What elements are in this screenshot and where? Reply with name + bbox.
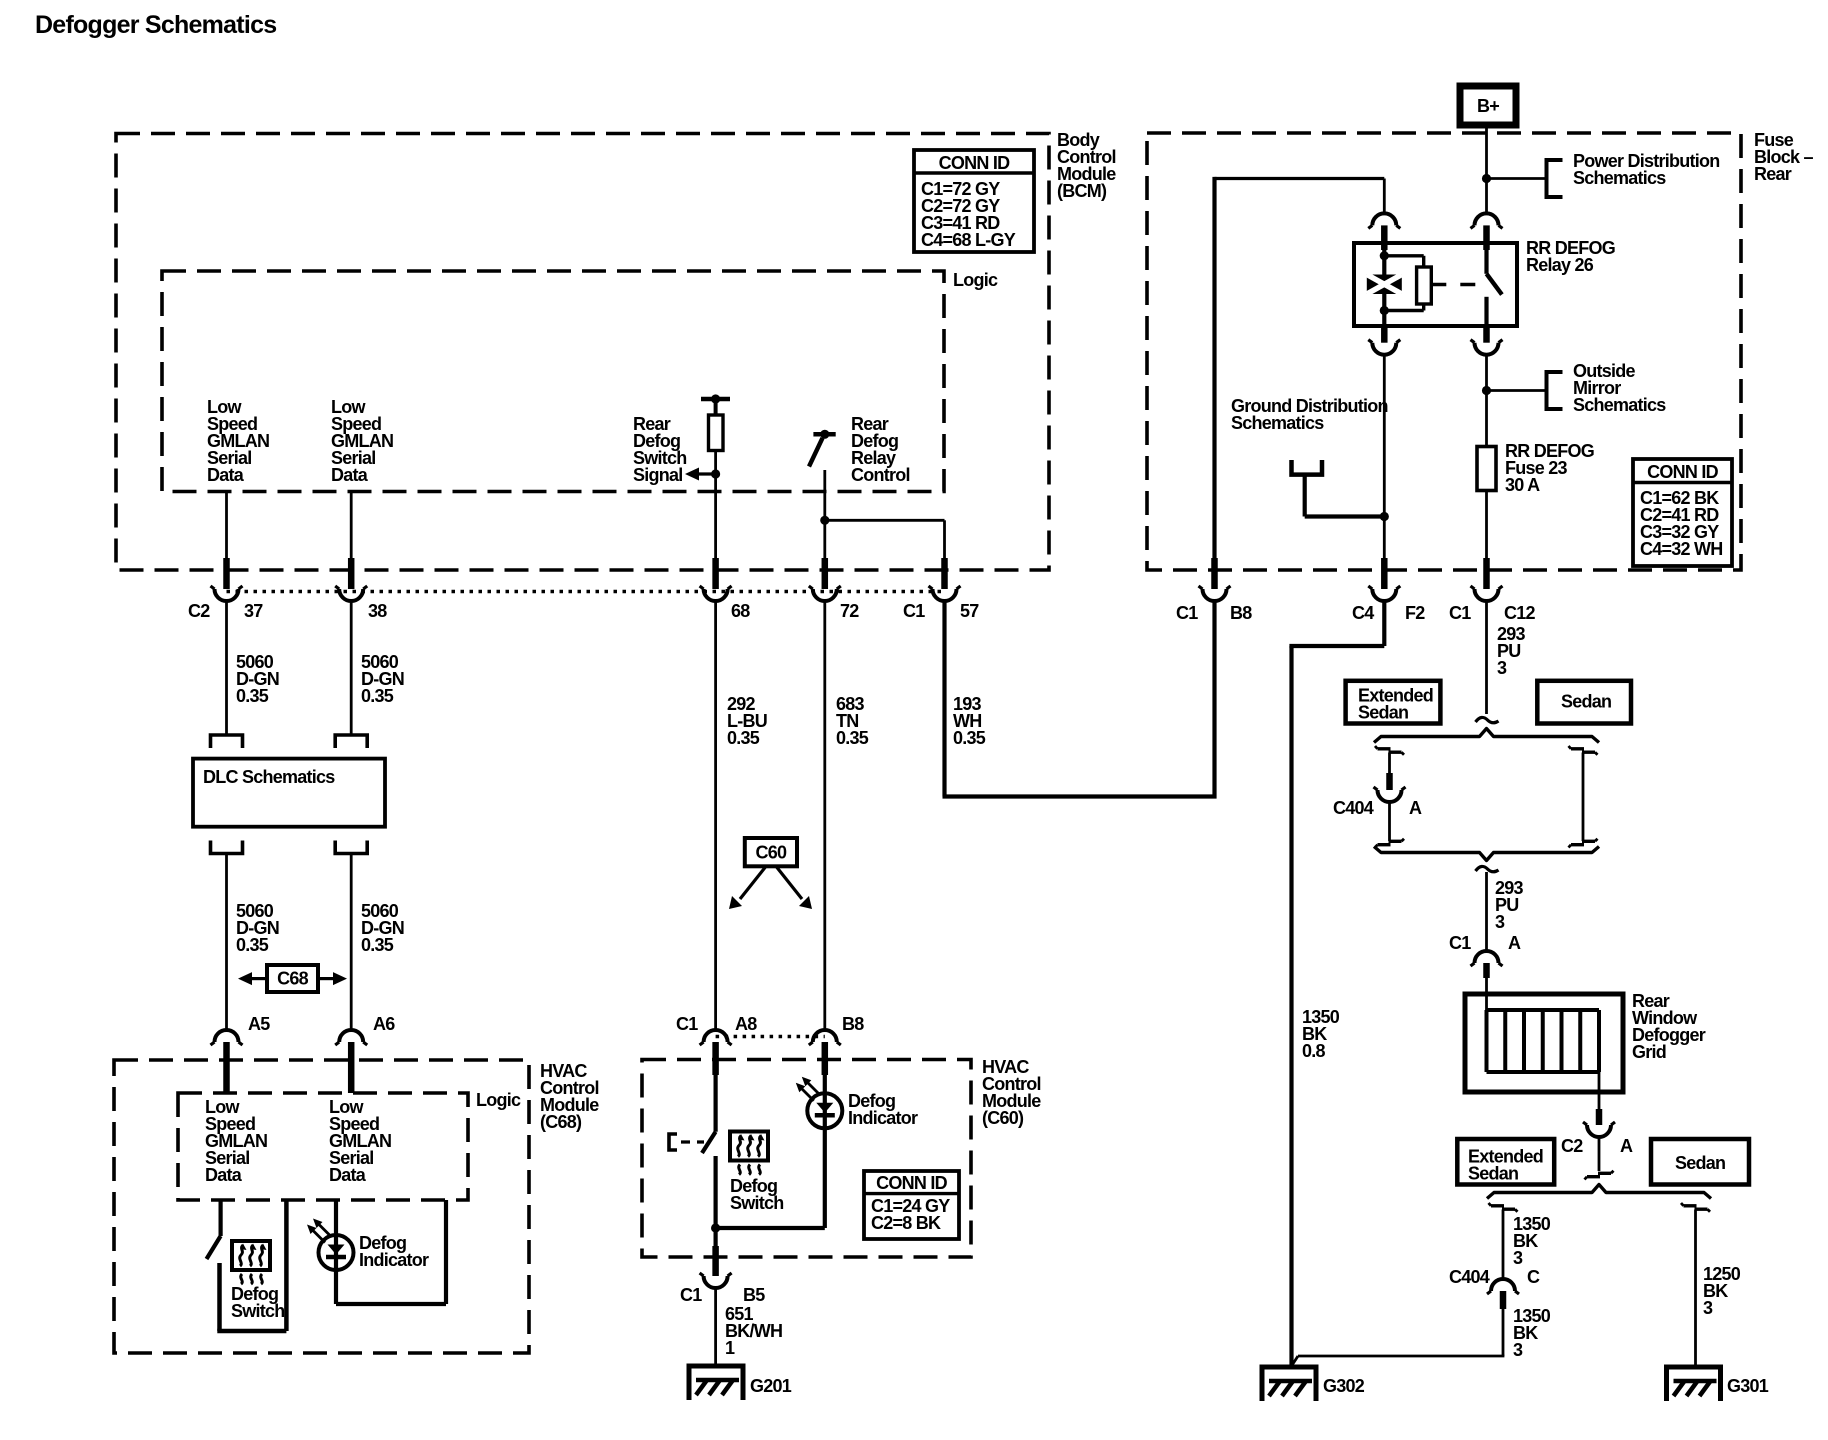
- wire C68 indicator net: [334, 1200, 338, 1304]
- svg-text:Defogger Schematics: Defogger Schematics: [35, 11, 276, 39]
- svg-text:C68: C68: [277, 969, 309, 989]
- svg-text:72: 72: [840, 601, 859, 621]
- svg-text:C1: C1: [1449, 933, 1471, 953]
- wire-end squiggle below merge: [1476, 866, 1499, 871]
- connector pin 38 (BCM bottom): [348, 558, 355, 589]
- wire B+ feed into fuse block: [1485, 125, 1488, 214]
- connector pin C12 (fuse block bottom): [1483, 558, 1490, 589]
- bracket DLC top-right: [335, 735, 367, 748]
- icon heated rear window (C60 switch): [730, 1132, 768, 1161]
- svg-text:Grid: Grid: [1632, 1042, 1666, 1062]
- connector pin A5 (HVAC C68 top): [215, 1030, 239, 1042]
- bracket Power Distribution Schematics: [1547, 160, 1563, 197]
- wire Extended Sedan branch lower: [1388, 801, 1391, 841]
- module Fuse Block - Rear dashed box: [1147, 133, 1741, 570]
- svg-text:3: 3: [1513, 1248, 1523, 1268]
- box Sedan (upper): [1537, 681, 1631, 724]
- svg-text:Logic: Logic: [953, 270, 998, 290]
- connector pin B8 (HVAC C60 top): [813, 1030, 837, 1042]
- wire 1350 BK 3 upper segment: [1502, 1210, 1505, 1281]
- svg-text:Relay 26: Relay 26: [1526, 255, 1594, 275]
- wire 1250 BK 3 to G301: [1694, 1210, 1697, 1368]
- svg-text:Sedan: Sedan: [1561, 692, 1611, 712]
- wire relay-control branch to pin 57: [820, 516, 829, 525]
- connector relay 26 coil bottom pin: [1381, 326, 1388, 343]
- svg-text:30 A: 30 A: [1505, 475, 1540, 495]
- svg-text:1: 1: [725, 1338, 735, 1358]
- svg-text:C404: C404: [1333, 798, 1374, 818]
- svg-text:A: A: [1508, 933, 1521, 953]
- svg-text:0.35: 0.35: [836, 728, 869, 748]
- connector pin 72 (BCM bottom): [822, 558, 829, 589]
- svg-text:B8: B8: [1230, 603, 1252, 623]
- connector pin B8 (fuse block bottom): [1211, 558, 1218, 589]
- connector pin 57 (BCM bottom): [941, 558, 948, 589]
- svg-text:3: 3: [1513, 1340, 1523, 1360]
- wire 5060 D-GN from pin 37: [225, 492, 228, 560]
- svg-text:C: C: [1527, 1267, 1540, 1287]
- svg-text:C1: C1: [1176, 603, 1198, 623]
- relay coil crossed-box symbol: [1367, 275, 1402, 295]
- connector pin B5 (C60 bottom): [712, 1246, 719, 1276]
- bracket DLC bottom-right: [335, 841, 367, 854]
- svg-text:0.35: 0.35: [236, 935, 269, 955]
- bracket DLC bottom-left: [211, 841, 243, 854]
- wire to Power Distribution Schematics: [1487, 177, 1547, 180]
- wire 651 BK/WH to G201: [714, 1287, 717, 1366]
- svg-text:C1: C1: [1449, 603, 1471, 623]
- connector dotted line BCM C2/C1 row: [227, 590, 945, 593]
- svg-text:G201: G201: [750, 1376, 792, 1396]
- wire 683 TN (72 to B8): [823, 600, 826, 1031]
- component Rear Window Defogger Grid: [1465, 994, 1623, 1092]
- wire relay coil to C4 F2: [1383, 354, 1386, 559]
- ground G201: [689, 1366, 743, 1400]
- svg-text:A5: A5: [248, 1014, 270, 1034]
- connector pin F2 (fuse block bottom): [1381, 558, 1388, 589]
- svg-text:C4: C4: [1352, 603, 1374, 623]
- box DLC Schematics: [193, 759, 385, 827]
- svg-text:A: A: [1620, 1136, 1633, 1156]
- wire grid to variant merge: [1598, 1136, 1601, 1171]
- svg-text:Rear: Rear: [1754, 164, 1792, 184]
- svg-text:C60: C60: [756, 843, 788, 863]
- connector relay 26 coil top pin: [1372, 213, 1396, 225]
- connector pin 37 (BCM bottom): [223, 558, 230, 589]
- ground G301: [1667, 1367, 1721, 1401]
- svg-text:Data: Data: [207, 465, 245, 485]
- svg-text:G301: G301: [1727, 1376, 1769, 1396]
- wire C60 indicator net: [823, 1075, 827, 1228]
- connector pin A8 (HVAC C60 top): [704, 1030, 728, 1042]
- connector C60 inline box with arrows: [745, 838, 797, 866]
- branch Sedan bottom T: [1571, 843, 1584, 846]
- ground G302: [1262, 1367, 1316, 1401]
- connector C1 pin A (defogger grid): [1475, 951, 1499, 963]
- svg-text:A6: A6: [373, 1014, 395, 1034]
- svg-text:C1: C1: [676, 1014, 698, 1034]
- svg-text:Schematics: Schematics: [1573, 395, 1666, 415]
- svg-text:Indicator: Indicator: [359, 1250, 429, 1270]
- svg-text:CONN ID: CONN ID: [1647, 462, 1719, 482]
- wire into grid: [1485, 978, 1488, 1010]
- svg-text:(C68): (C68): [540, 1112, 582, 1132]
- fuse block CONN ID table: [1633, 459, 1732, 566]
- arrow Rear Defog Switch Signal (points left): [711, 469, 720, 478]
- relay switch contact: [1484, 243, 1488, 274]
- branch 1350 BK top T: [1491, 1204, 1504, 1207]
- svg-text:0.35: 0.35: [236, 686, 269, 706]
- C68 Logic dashed box: [178, 1093, 468, 1200]
- BCM Logic dashed box: [162, 271, 944, 492]
- svg-text:Schematics: Schematics: [1231, 413, 1324, 433]
- svg-text:3: 3: [1497, 658, 1507, 678]
- wire 193 WH (57 to B8 fuse block): [942, 600, 946, 797]
- bracket DLC top-left: [211, 735, 243, 748]
- switch Defog Switch (C68): [219, 1200, 223, 1236]
- LED Defog Indicator (C68): [319, 1235, 354, 1270]
- wire 293 PU from C12: [1485, 600, 1488, 714]
- svg-text:CONN ID: CONN ID: [939, 153, 1011, 173]
- box Extended Sedan (lower): [1457, 1139, 1554, 1185]
- C60 CONN ID table: [864, 1171, 959, 1239]
- svg-text:CONN ID: CONN ID: [876, 1173, 948, 1193]
- svg-text:0.35: 0.35: [727, 728, 760, 748]
- wire fuse to C1 C12: [1485, 491, 1488, 560]
- svg-text:Sedan: Sedan: [1358, 703, 1408, 723]
- svg-text:Data: Data: [329, 1165, 367, 1185]
- branch Extended Sedan bottom T: [1378, 843, 1391, 846]
- svg-text:C2: C2: [188, 601, 210, 621]
- svg-text:A: A: [1409, 798, 1422, 818]
- branch Extended Sedan top T: [1378, 747, 1391, 750]
- connector relay 26 switch top pin: [1475, 213, 1499, 225]
- svg-text:3: 3: [1703, 1298, 1713, 1318]
- svg-text:DLC Schematics: DLC Schematics: [203, 767, 335, 787]
- branch 1250 BK top T: [1684, 1204, 1697, 1207]
- svg-text:0.35: 0.35: [361, 935, 394, 955]
- svg-text:0.35: 0.35: [361, 686, 394, 706]
- wire relay switch to fuse: [1485, 354, 1488, 447]
- svg-text:Data: Data: [331, 465, 369, 485]
- svg-text:Sedan: Sedan: [1468, 1164, 1518, 1184]
- module Body Control Module (BCM) dashed box: [116, 134, 1049, 571]
- svg-text:0.35: 0.35: [953, 728, 986, 748]
- svg-text:Sedan: Sedan: [1675, 1153, 1725, 1173]
- box Sedan (lower): [1651, 1139, 1749, 1185]
- svg-text:38: 38: [368, 601, 387, 621]
- svg-text:Switch: Switch: [730, 1193, 784, 1213]
- svg-text:C2: C2: [1561, 1136, 1583, 1156]
- wire 292 L-BU (68 to A8): [714, 600, 717, 1031]
- svg-text:B+: B+: [1477, 96, 1499, 116]
- svg-text:57: 57: [960, 601, 979, 621]
- icon heated rear window (C68 switch): [232, 1241, 270, 1270]
- wire 5060 D-GN to A5: [225, 854, 228, 1032]
- svg-text:68: 68: [731, 601, 750, 621]
- svg-text:C1: C1: [680, 1285, 702, 1305]
- svg-text:Data: Data: [205, 1165, 243, 1185]
- brace variant merge bottom: [1374, 847, 1599, 861]
- fuse RR DEFOG Fuse 23 30A: [1477, 447, 1496, 491]
- svg-text:C1: C1: [903, 601, 925, 621]
- svg-text:C404: C404: [1449, 1267, 1490, 1287]
- svg-text:A8: A8: [735, 1014, 757, 1034]
- svg-text:(BCM): (BCM): [1057, 181, 1107, 201]
- connector pin 68 (BCM bottom): [712, 558, 719, 589]
- LED Defog Indicator (C60): [807, 1093, 842, 1128]
- relay RR DEFOG Relay 26 box: [1354, 243, 1517, 326]
- connector C404 pin A inline: [1386, 773, 1393, 790]
- svg-text:Logic: Logic: [476, 1090, 521, 1110]
- wire Sedan branch (no connector): [1582, 753, 1585, 842]
- wire 5060 D-GN from pin 38: [350, 492, 353, 560]
- connector C404 pin C inline: [1491, 1279, 1515, 1291]
- BCM CONN ID table: [914, 150, 1034, 252]
- actuator linkage (C60 switch): [669, 1134, 677, 1150]
- wire 5060 D-GN to A6: [350, 854, 353, 1032]
- brace lower variant split: [1487, 1185, 1711, 1199]
- module HVAC Control Module (C60) dashed box: [642, 1060, 971, 1258]
- svg-text:Indicator: Indicator: [848, 1108, 918, 1128]
- svg-text:G302: G302: [1323, 1376, 1365, 1396]
- wire 1350 BK 0.8 (F2 to G302): [1382, 600, 1386, 646]
- connector C2 pin A (grid bottom): [1596, 1109, 1603, 1125]
- svg-text:C4=68 L-GY: C4=68 L-GY: [921, 230, 1016, 250]
- module HVAC Control Module (C68) dashed box: [114, 1060, 529, 1353]
- wire Extended Sedan branch upper: [1388, 753, 1391, 774]
- connector dotted line C60 C1 row: [716, 1035, 825, 1038]
- svg-text:C2=8 BK: C2=8 BK: [871, 1213, 941, 1233]
- bracket Outside Mirror Schematics: [1547, 372, 1563, 409]
- wire 293 PU to C1 A: [1485, 872, 1488, 952]
- wire-end squiggle above variant brace: [1476, 717, 1499, 722]
- svg-text:(C60): (C60): [982, 1108, 1024, 1128]
- relay coil wire: [1382, 250, 1386, 326]
- svg-text:37: 37: [244, 601, 263, 621]
- box Extended Sedan (upper): [1346, 681, 1441, 724]
- svg-text:Schematics: Schematics: [1573, 168, 1666, 188]
- branch grid bottom T: [1587, 1175, 1600, 1178]
- svg-text:C4=32 WH: C4=32 WH: [1640, 539, 1723, 559]
- connector pin A6 (HVAC C68 top): [339, 1030, 363, 1042]
- svg-text:3: 3: [1495, 912, 1505, 932]
- bracket Ground Distribution reference: [1292, 460, 1323, 475]
- wire pin 68 net inside BCM: [714, 451, 717, 560]
- svg-text:B5: B5: [743, 1285, 765, 1305]
- svg-text:C12: C12: [1504, 603, 1536, 623]
- switch Defog Switch (C60): [713, 1075, 717, 1132]
- relay internal resistor branch: [1384, 254, 1423, 257]
- power feed B+ box: [1460, 86, 1516, 125]
- resistor Rear Defog Switch Signal pull-up: [701, 397, 730, 402]
- svg-text:Switch: Switch: [231, 1301, 285, 1321]
- svg-text:Control: Control: [851, 465, 910, 485]
- connector relay 26 switch bottom pin: [1483, 326, 1490, 343]
- brace variant split top: [1374, 729, 1599, 743]
- wire 1350 BK 3 lower segment: [1502, 1309, 1505, 1356]
- svg-text:Signal: Signal: [633, 465, 683, 485]
- switch Rear Defog Relay Control driver: [813, 432, 835, 437]
- svg-text:F2: F2: [1405, 603, 1425, 623]
- branch Sedan top T: [1571, 747, 1584, 750]
- relay actuator dashed link: [1431, 283, 1482, 286]
- wire C60 B5 to module edge: [713, 1228, 717, 1246]
- wire to Outside Mirror Schematics: [1487, 389, 1547, 392]
- svg-text:B8: B8: [842, 1014, 864, 1034]
- wire B8 net to relay coil: [1215, 177, 1385, 180]
- connector C68 inline box with arrows: [267, 965, 318, 992]
- svg-text:0.8: 0.8: [1302, 1041, 1326, 1061]
